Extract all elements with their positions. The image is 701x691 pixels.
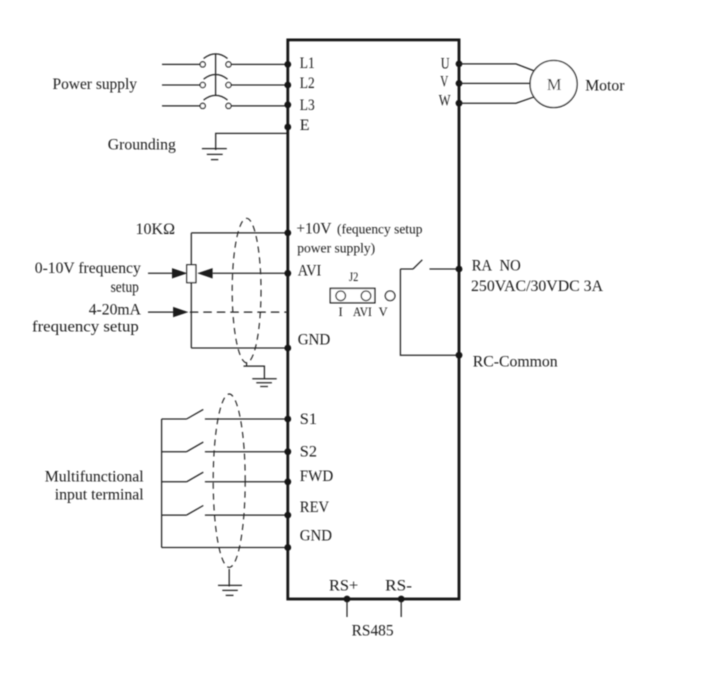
terminal FWD — [284, 478, 291, 485]
switch FWD — [162, 472, 204, 482]
svg-text:Multifunctional: Multifunctional — [45, 468, 145, 485]
wire E to ground — [216, 133, 287, 150]
terminal W — [456, 100, 463, 107]
wire relay common — [400, 269, 459, 355]
svg-text:E: E — [300, 117, 310, 134]
terminal RA — [456, 266, 463, 273]
svg-text:M: M — [547, 75, 562, 94]
jumper J2 — [330, 288, 375, 302]
breaker link bar — [215, 54, 217, 96]
terminal REV — [284, 512, 291, 519]
svg-text:GND: GND — [298, 332, 331, 349]
svg-text:W: W — [439, 93, 451, 110]
svg-text:input terminal: input terminal — [55, 486, 145, 503]
svg-text:power supply): power supply) — [297, 241, 375, 256]
wire GND analog — [191, 347, 287, 349]
wire RS+ stub — [346, 600, 348, 617]
terminal U — [456, 61, 463, 68]
motor M1 — [530, 61, 577, 108]
svg-text:frequency setup: frequency setup — [32, 319, 139, 336]
wire +10V — [191, 232, 287, 234]
wire RS- stub — [400, 600, 402, 617]
breaker pole L2 — [200, 82, 205, 87]
terminal GND analog — [284, 345, 291, 352]
wire 4-20mA dashed — [190, 311, 288, 313]
shield ellipse analog — [232, 218, 261, 362]
terminal RC — [456, 352, 463, 359]
svg-text:S1: S1 — [300, 411, 317, 428]
svg-text:J2: J2 — [349, 270, 358, 284]
wire V to motor — [459, 82, 530, 84]
svg-text:250VAC/30VDC 3A: 250VAC/30VDC 3A — [471, 278, 603, 295]
bus multifunction inputs — [161, 419, 163, 548]
wire REV — [205, 514, 288, 516]
potentiometer R1 10K — [187, 265, 196, 283]
svg-text:Motor: Motor — [585, 78, 625, 95]
svg-text:0-10V frequency: 0-10V frequency — [35, 260, 141, 277]
wire L1 left — [162, 63, 200, 65]
wire S2 — [205, 451, 288, 453]
svg-text:10KΩ: 10KΩ — [136, 221, 176, 238]
wire L2 left — [162, 84, 200, 86]
terminal GND multifunction — [284, 544, 291, 551]
wire shield to ground — [244, 362, 265, 378]
wire U to motor — [459, 64, 535, 71]
svg-text:I: I — [339, 305, 343, 319]
svg-text:V: V — [379, 305, 388, 319]
svg-text:REV: REV — [300, 499, 330, 516]
svg-text:L3: L3 — [300, 97, 315, 114]
svg-text:RS485: RS485 — [352, 623, 394, 640]
svg-text:L2: L2 — [300, 75, 315, 92]
wire L3 left — [162, 105, 200, 107]
terminal RS+ — [344, 596, 351, 603]
svg-text:RC-Common: RC-Common — [473, 353, 558, 370]
ground (earth) shield analog — [252, 379, 276, 387]
svg-text:(fequency setup: (fequency setup — [337, 223, 423, 238]
switch S2 — [162, 442, 204, 452]
wire L2 right — [231, 84, 288, 86]
svg-text:AVI: AVI — [353, 305, 372, 319]
terminal L1 — [284, 61, 291, 68]
wire W to motor — [459, 97, 535, 103]
terminal +10V — [284, 230, 291, 237]
ground (earth) E — [202, 149, 227, 160]
ground (earth) shield multifunction — [218, 585, 242, 595]
wire L1 right — [231, 63, 288, 65]
breaker pole L1 — [200, 62, 205, 67]
svg-text:RA NO: RA NO — [472, 257, 521, 274]
switch REV — [162, 506, 204, 516]
breaker pole L3 — [200, 103, 205, 108]
svg-text:GND: GND — [300, 528, 332, 545]
wire S1 — [205, 418, 288, 420]
svg-text:AVI: AVI — [298, 263, 321, 280]
terminal V — [456, 80, 463, 87]
svg-text:+10V: +10V — [296, 221, 331, 238]
relay contact RA — [400, 260, 459, 269]
switch S1 — [162, 409, 204, 419]
wire pot branch — [190, 233, 192, 348]
shield ellipse multifunction — [213, 394, 245, 567]
terminal E — [284, 124, 291, 131]
arrow 0-10V input — [148, 272, 173, 274]
terminal RS- — [398, 596, 405, 603]
svg-text:FWD: FWD — [300, 468, 333, 485]
terminal L2 — [284, 82, 291, 89]
svg-text:Power supply: Power supply — [53, 76, 138, 93]
wire FWD — [205, 481, 288, 483]
wire GND multifunction — [162, 547, 288, 549]
wire shield to ground — [228, 569, 230, 587]
svg-text:4-20mA: 4-20mA — [89, 302, 142, 319]
svg-text:V: V — [440, 74, 448, 91]
svg-text:setup: setup — [111, 279, 139, 296]
svg-text:U: U — [441, 55, 450, 72]
terminal S1 — [284, 416, 291, 423]
svg-text:RS-: RS- — [385, 578, 412, 595]
terminal S2 — [284, 448, 291, 455]
svg-text:S2: S2 — [300, 444, 317, 461]
wire L3 right — [231, 105, 288, 107]
svg-text:RS+: RS+ — [329, 578, 358, 595]
svg-text:L1: L1 — [300, 55, 315, 72]
terminal L3 — [284, 101, 291, 108]
svg-text:Grounding: Grounding — [108, 137, 176, 154]
arrow 4-20mA input — [148, 311, 174, 313]
arrow AVI wiper — [213, 272, 288, 274]
inverter box — [288, 40, 459, 599]
terminal AVI — [284, 270, 291, 277]
